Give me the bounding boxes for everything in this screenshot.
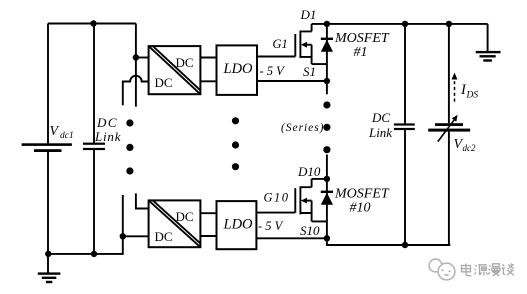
transistor Q1 drain stub	[300, 24, 311, 32]
svg-text:dc1: dc1	[60, 131, 74, 141]
transistor Q10 gate bar	[294, 188, 296, 212]
transistor Q1 gate bar	[294, 34, 296, 57]
svg-text:MOSFET: MOSFET	[334, 31, 390, 46]
regulator LDO #1 box	[217, 45, 258, 95]
node D1 on top bus	[324, 21, 330, 27]
svg-text:S1: S1	[303, 64, 316, 79]
svg-text:G1: G1	[273, 37, 288, 51]
svg-text:G10: G10	[264, 191, 289, 205]
series continuation dots left column	[126, 119, 133, 174]
regulator LDO #10 box	[217, 201, 257, 249]
body diode D1 branch	[326, 24, 328, 81]
wire series stack lower	[326, 155, 328, 179]
series continuation dots middle column	[232, 117, 239, 170]
svg-text:Link: Link	[368, 125, 392, 140]
transistor Q1 channel bar	[299, 31, 301, 58]
node converter 1 plus tap	[133, 54, 139, 60]
svg-text:D10: D10	[297, 164, 321, 179]
wire bottom-right bus	[327, 238, 450, 245]
node DC-link left bottom	[91, 251, 97, 257]
wire converter1-LDO1 links	[200, 57, 216, 59]
wire converter 10 minus input	[123, 235, 149, 237]
svg-text:Link: Link	[94, 129, 121, 144]
transistor Q1 source stub	[300, 45, 327, 64]
node DC-link right on top bus	[402, 21, 408, 27]
current arrow IDS dashed	[454, 77, 456, 102]
converter DC/DC #10 box	[149, 200, 201, 247]
svg-text:DC: DC	[96, 115, 117, 130]
ground left	[47, 254, 49, 273]
ground right	[487, 24, 489, 51]
wire converter10-LDO10 links	[200, 212, 216, 214]
wire top-right bus	[312, 23, 488, 25]
wire gate drive G10	[256, 212, 295, 214]
svg-text:DS: DS	[466, 91, 479, 101]
logo icon circles	[429, 259, 455, 280]
svg-text:#1: #1	[354, 45, 368, 60]
wire series stack upper	[326, 81, 328, 94]
battery Vdc1	[22, 143, 72, 152]
wire bottom-left bus	[48, 195, 123, 254]
node S1	[324, 78, 330, 84]
wire gate drive G1	[257, 56, 295, 58]
node ground tap	[45, 251, 51, 257]
svg-text:dc2: dc2	[463, 143, 476, 153]
svg-text:DC: DC	[176, 209, 194, 224]
capacitor DC-Link left	[93, 24, 95, 143]
logo text 电源漫谈	[462, 264, 514, 276]
svg-text:DC: DC	[155, 75, 173, 90]
svg-text:DC: DC	[155, 229, 173, 244]
wire converter 10 plus input	[136, 193, 149, 208]
converter DC/DC #1 box	[149, 46, 201, 94]
transistor Q1 body stub with arrow	[305, 44, 312, 46]
variable arrow through Vdc2	[438, 118, 456, 141]
svg-text:- 5 V: - 5 V	[258, 219, 284, 233]
series continuation dots stack column	[323, 101, 330, 153]
wire converter 1 minus input with hop	[123, 76, 149, 106]
svg-text:S10: S10	[300, 223, 320, 238]
wire source return S1	[257, 80, 327, 82]
svg-text:- 5 V: - 5 V	[260, 64, 286, 78]
svg-text:LDO: LDO	[223, 61, 254, 77]
node DC-link right bottom	[402, 242, 408, 248]
svg-text:(Series): (Series)	[281, 122, 324, 134]
svg-text:MOSFET: MOSFET	[334, 187, 390, 202]
transistor Q10 source stub	[300, 201, 327, 222]
wire source return S10	[256, 237, 327, 239]
wire D10 drain link	[312, 178, 327, 180]
node D10	[324, 176, 330, 182]
wire bus drop to converter 1	[135, 24, 137, 107]
capacitor DC-Link right	[404, 24, 406, 124]
svg-text:V: V	[50, 124, 60, 139]
wire converter 1 plus input	[136, 57, 149, 59]
body diode D10 branch	[326, 179, 328, 238]
node converter 10 minus tap	[120, 233, 126, 239]
transistor Q10 body stub with arrow	[305, 200, 312, 202]
svg-text:LDO: LDO	[223, 217, 254, 233]
svg-text:#10: #10	[350, 201, 371, 216]
node Vdc2 on top bus	[446, 21, 452, 27]
transistor Q10 drain stub	[300, 179, 311, 187]
variable source Vdc2	[448, 24, 450, 123]
svg-text:D1: D1	[300, 7, 317, 22]
wire left rail upper	[47, 24, 49, 144]
node S10	[324, 235, 330, 241]
wire top-left bus	[48, 23, 136, 25]
transistor Q10 channel bar	[299, 186, 301, 214]
svg-text:DC: DC	[176, 55, 194, 70]
node top bus / DC-link tap	[90, 20, 96, 26]
wire left rail lower	[47, 152, 49, 254]
svg-text:DC: DC	[371, 110, 390, 125]
